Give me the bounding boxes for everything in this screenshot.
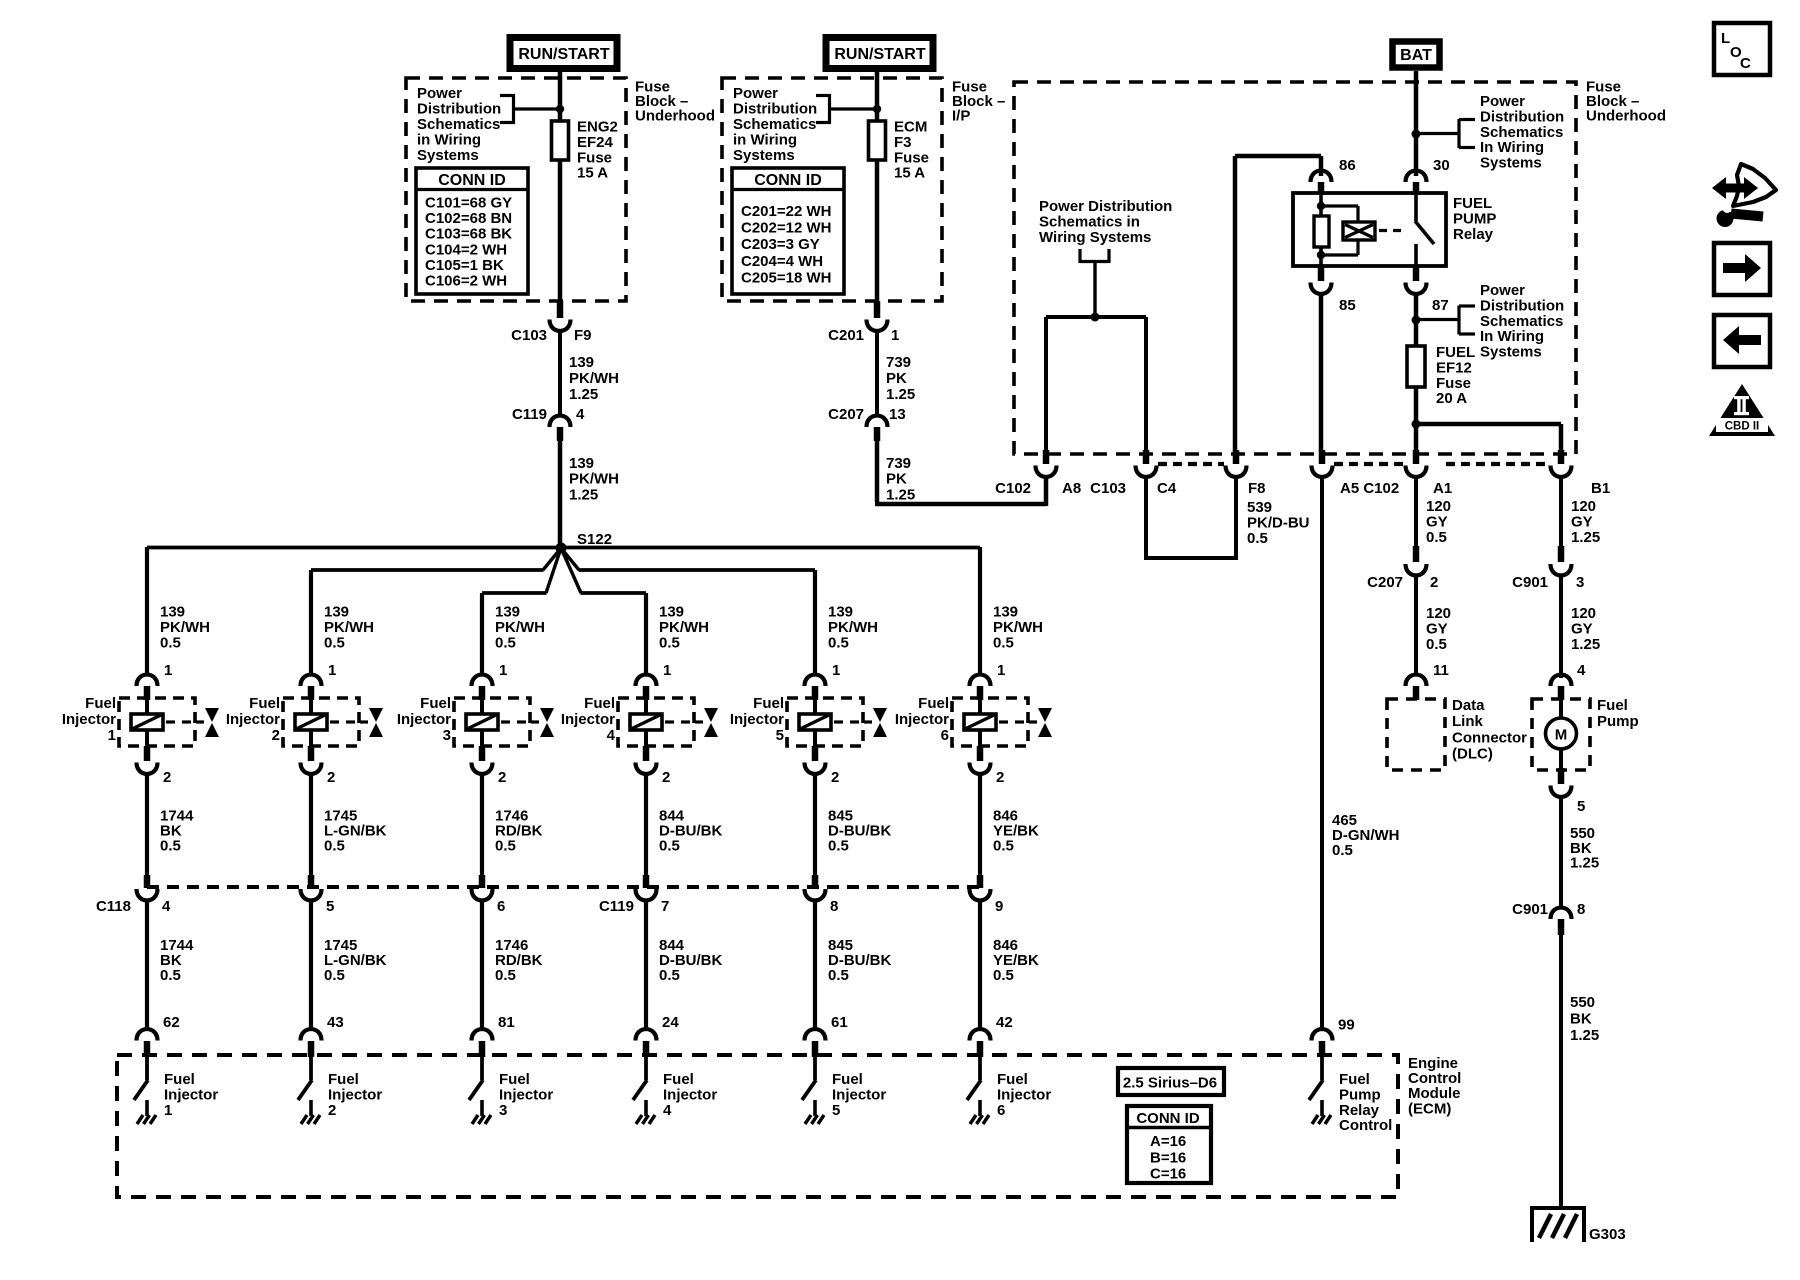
- svg-text:I/P: I/P: [952, 108, 970, 125]
- svg-text:739: 739: [886, 455, 911, 472]
- svg-text:C118: C118: [96, 898, 131, 915]
- svg-text:81: 81: [498, 1014, 515, 1031]
- svg-text:Systems: Systems: [733, 147, 795, 164]
- svg-text:Systems: Systems: [1480, 155, 1542, 172]
- svg-text:3: 3: [443, 727, 451, 744]
- svg-text:13: 13: [889, 406, 906, 423]
- svg-text:RUN/START: RUN/START: [834, 46, 925, 63]
- svg-text:43: 43: [327, 1014, 344, 1031]
- svg-text:0.5: 0.5: [160, 838, 181, 855]
- svg-text:C204=4 WH: C204=4 WH: [741, 253, 823, 270]
- svg-text:15 A: 15 A: [577, 165, 608, 182]
- svg-text:B=16: B=16: [1150, 1150, 1186, 1167]
- svg-text:120: 120: [1426, 498, 1451, 515]
- svg-text:Injector: Injector: [895, 711, 949, 728]
- svg-text:PK/WH: PK/WH: [495, 619, 545, 636]
- svg-text:1: 1: [499, 662, 507, 679]
- svg-text:PK/WH: PK/WH: [160, 619, 210, 636]
- svg-text:86: 86: [1339, 157, 1356, 174]
- svg-text:C207: C207: [1367, 574, 1403, 591]
- svg-text:A1: A1: [1433, 480, 1452, 497]
- svg-text:1: 1: [832, 662, 840, 679]
- svg-text:2: 2: [498, 769, 506, 786]
- svg-text:Link: Link: [1452, 713, 1483, 730]
- svg-text:PK/D-BU: PK/D-BU: [1247, 515, 1310, 532]
- svg-text:85: 85: [1339, 297, 1356, 314]
- svg-text:1.25: 1.25: [886, 486, 915, 503]
- svg-text:PK: PK: [886, 471, 907, 488]
- svg-text:15 A: 15 A: [894, 165, 925, 182]
- svg-text:Control: Control: [1339, 1117, 1392, 1134]
- svg-text:in Wiring: in Wiring: [733, 132, 797, 149]
- svg-text:3: 3: [1576, 574, 1584, 591]
- svg-text:C104=2 WH: C104=2 WH: [425, 241, 507, 258]
- svg-text:Injector: Injector: [730, 711, 784, 728]
- svg-text:4: 4: [162, 898, 171, 915]
- svg-text:Fuel: Fuel: [584, 695, 615, 712]
- svg-text:C106=2 WH: C106=2 WH: [425, 273, 507, 290]
- svg-text:G303: G303: [1589, 1226, 1626, 1243]
- svg-text:2: 2: [327, 769, 335, 786]
- svg-text:139: 139: [993, 604, 1018, 621]
- svg-text:3: 3: [499, 1102, 507, 1119]
- svg-text:PK/WH: PK/WH: [659, 619, 709, 636]
- svg-text:2: 2: [272, 727, 280, 744]
- svg-text:1.25: 1.25: [1570, 855, 1599, 872]
- svg-text:120: 120: [1426, 605, 1451, 622]
- svg-text:7: 7: [661, 898, 669, 915]
- svg-text:Schematics: Schematics: [733, 116, 816, 133]
- svg-text:C202=12 WH: C202=12 WH: [741, 220, 831, 237]
- svg-text:1.25: 1.25: [1571, 529, 1600, 546]
- svg-text:Data: Data: [1452, 697, 1485, 714]
- svg-text:Underhood: Underhood: [1586, 108, 1666, 125]
- svg-text:61: 61: [831, 1014, 848, 1031]
- svg-text:GY: GY: [1426, 621, 1448, 638]
- svg-text:0.5: 0.5: [659, 635, 680, 652]
- svg-text:0.5: 0.5: [993, 838, 1014, 855]
- svg-text:0.5: 0.5: [324, 838, 345, 855]
- svg-text:5: 5: [326, 898, 334, 915]
- svg-text:6: 6: [941, 727, 949, 744]
- svg-text:CONN ID: CONN ID: [438, 172, 506, 189]
- svg-text:87: 87: [1432, 297, 1449, 314]
- svg-text:539: 539: [1247, 499, 1272, 516]
- svg-text:Systems: Systems: [417, 147, 479, 164]
- svg-text:139: 139: [828, 604, 853, 621]
- svg-text:Injector: Injector: [62, 711, 116, 728]
- svg-text:CBD II: CBD II: [1725, 421, 1760, 433]
- svg-text:CONN ID: CONN ID: [1136, 1110, 1200, 1127]
- svg-text:0.5: 0.5: [160, 635, 181, 652]
- svg-text:F8: F8: [1248, 480, 1266, 497]
- svg-text:BK: BK: [1570, 1010, 1592, 1027]
- svg-text:C203=3 GY: C203=3 GY: [741, 236, 820, 253]
- svg-text:1.25: 1.25: [569, 486, 598, 503]
- svg-text:0.5: 0.5: [495, 967, 516, 984]
- svg-text:C207: C207: [828, 406, 864, 423]
- svg-text:Pump: Pump: [1597, 713, 1639, 730]
- svg-text:Injector: Injector: [561, 711, 615, 728]
- svg-text:C102=68 BN: C102=68 BN: [425, 210, 512, 227]
- svg-text:0.5: 0.5: [828, 635, 849, 652]
- svg-text:24: 24: [662, 1014, 679, 1031]
- svg-text:5: 5: [832, 1102, 840, 1119]
- svg-text:C: C: [1740, 55, 1751, 72]
- svg-text:0.5: 0.5: [1332, 842, 1353, 859]
- svg-text:C201=22 WH: C201=22 WH: [741, 203, 831, 220]
- svg-text:139: 139: [160, 604, 185, 621]
- svg-text:Power: Power: [417, 85, 462, 102]
- svg-text:139: 139: [495, 604, 520, 621]
- svg-text:Distribution: Distribution: [417, 101, 501, 118]
- svg-text:(DLC): (DLC): [1452, 746, 1493, 763]
- svg-text:30: 30: [1433, 157, 1450, 174]
- svg-text:S122: S122: [577, 531, 612, 548]
- svg-text:0.5: 0.5: [1426, 636, 1447, 653]
- svg-text:C201: C201: [828, 327, 864, 344]
- svg-text:C102: C102: [995, 480, 1031, 497]
- svg-text:C205=18 WH: C205=18 WH: [741, 269, 831, 286]
- svg-text:PK/WH: PK/WH: [569, 370, 619, 387]
- svg-text:1.25: 1.25: [1571, 636, 1600, 653]
- svg-text:A=16: A=16: [1150, 1133, 1186, 1150]
- svg-text:8: 8: [830, 898, 838, 915]
- svg-text:1.25: 1.25: [1570, 1027, 1599, 1044]
- svg-text:0.5: 0.5: [828, 967, 849, 984]
- svg-text:0.5: 0.5: [993, 967, 1014, 984]
- svg-text:PK/WH: PK/WH: [324, 619, 374, 636]
- svg-text:1: 1: [328, 662, 336, 679]
- svg-text:4: 4: [576, 406, 585, 423]
- svg-text:C105=1 BK: C105=1 BK: [425, 257, 504, 274]
- svg-text:42: 42: [996, 1014, 1013, 1031]
- svg-text:GY: GY: [1571, 621, 1593, 638]
- svg-text:Systems: Systems: [1480, 344, 1542, 361]
- svg-text:in Wiring: in Wiring: [417, 132, 481, 149]
- svg-text:2: 2: [328, 1102, 336, 1119]
- svg-text:0.5: 0.5: [1426, 529, 1447, 546]
- svg-text:2: 2: [662, 769, 670, 786]
- svg-text:20 A: 20 A: [1436, 390, 1467, 407]
- svg-text:A8: A8: [1062, 480, 1081, 497]
- svg-text:A5 C102: A5 C102: [1340, 480, 1399, 497]
- svg-text:C901: C901: [1512, 901, 1548, 918]
- svg-text:0.5: 0.5: [659, 838, 680, 855]
- svg-text:1.25: 1.25: [569, 386, 598, 403]
- svg-text:PK/WH: PK/WH: [993, 619, 1043, 636]
- svg-text:550: 550: [1570, 994, 1595, 1011]
- svg-text:F9: F9: [574, 327, 592, 344]
- svg-text:2: 2: [1430, 574, 1438, 591]
- svg-text:GY: GY: [1571, 514, 1593, 531]
- svg-text:GY: GY: [1426, 514, 1448, 531]
- svg-text:0.5: 0.5: [993, 635, 1014, 652]
- svg-text:C119: C119: [599, 898, 634, 915]
- svg-text:0.5: 0.5: [495, 635, 516, 652]
- svg-text:Fuel: Fuel: [85, 695, 116, 712]
- svg-text:139: 139: [659, 604, 684, 621]
- svg-text:C119: C119: [512, 406, 547, 423]
- svg-text:C103=68 BK: C103=68 BK: [425, 226, 512, 243]
- svg-text:Injector: Injector: [226, 711, 280, 728]
- svg-text:2: 2: [996, 769, 1004, 786]
- svg-text:C103: C103: [1090, 480, 1126, 497]
- svg-text:C101=68 GY: C101=68 GY: [425, 195, 512, 212]
- svg-text:PK/WH: PK/WH: [828, 619, 878, 636]
- svg-text:Wiring Systems: Wiring Systems: [1039, 229, 1151, 246]
- svg-text:0.5: 0.5: [1247, 530, 1268, 547]
- svg-text:B1: B1: [1591, 480, 1610, 497]
- svg-text:Fuel: Fuel: [420, 695, 451, 712]
- svg-text:PK/WH: PK/WH: [569, 471, 619, 488]
- svg-text:99: 99: [1338, 1017, 1355, 1034]
- svg-text:1: 1: [663, 662, 671, 679]
- svg-text:M: M: [1555, 727, 1568, 744]
- svg-text:2: 2: [163, 769, 171, 786]
- svg-text:120: 120: [1571, 605, 1596, 622]
- svg-text:C=16: C=16: [1150, 1166, 1186, 1183]
- svg-text:Relay: Relay: [1453, 226, 1494, 243]
- svg-text:1: 1: [164, 1102, 172, 1119]
- svg-text:PK: PK: [886, 370, 907, 387]
- svg-text:Fuel: Fuel: [918, 695, 949, 712]
- svg-text:11: 11: [1433, 662, 1449, 679]
- svg-text:0.5: 0.5: [659, 967, 680, 984]
- svg-text:Distribution: Distribution: [733, 101, 817, 118]
- svg-text:6: 6: [997, 1102, 1005, 1119]
- svg-text:139: 139: [569, 354, 594, 371]
- svg-text:1: 1: [891, 327, 899, 344]
- svg-text:Fuel: Fuel: [753, 695, 784, 712]
- svg-text:8: 8: [1577, 901, 1585, 918]
- svg-text:Injector: Injector: [397, 711, 451, 728]
- svg-text:1: 1: [164, 662, 172, 679]
- svg-text:0.5: 0.5: [160, 967, 181, 984]
- svg-text:4: 4: [1577, 662, 1586, 679]
- svg-text:739: 739: [886, 354, 911, 371]
- svg-text:139: 139: [324, 604, 349, 621]
- svg-text:C103: C103: [511, 327, 547, 344]
- svg-text:Fuel: Fuel: [249, 695, 280, 712]
- svg-text:CONN ID: CONN ID: [754, 172, 822, 189]
- svg-text:Underhood: Underhood: [635, 108, 715, 125]
- svg-text:5: 5: [776, 727, 784, 744]
- svg-text:BAT: BAT: [1400, 47, 1432, 64]
- svg-text:1.25: 1.25: [886, 386, 915, 403]
- svg-text:RUN/START: RUN/START: [518, 46, 609, 63]
- svg-text:6: 6: [497, 898, 505, 915]
- svg-text:0.5: 0.5: [324, 967, 345, 984]
- svg-text:Connector: Connector: [1452, 729, 1527, 746]
- svg-text:9: 9: [995, 898, 1003, 915]
- svg-text:1: 1: [108, 727, 116, 744]
- svg-text:L: L: [1721, 30, 1730, 47]
- svg-text:(ECM): (ECM): [1408, 1100, 1451, 1117]
- svg-text:4: 4: [607, 727, 616, 744]
- svg-text:C901: C901: [1512, 574, 1548, 591]
- svg-text:120: 120: [1571, 498, 1596, 515]
- svg-text:4: 4: [663, 1102, 672, 1119]
- svg-text:5: 5: [1577, 798, 1585, 815]
- svg-text:Fuel: Fuel: [1597, 697, 1628, 714]
- svg-text:C4: C4: [1157, 480, 1177, 497]
- svg-text:0.5: 0.5: [828, 838, 849, 855]
- svg-text:0.5: 0.5: [495, 838, 516, 855]
- svg-text:0.5: 0.5: [324, 635, 345, 652]
- svg-text:Power: Power: [733, 85, 778, 102]
- svg-text:62: 62: [163, 1014, 180, 1031]
- svg-text:Schematics: Schematics: [417, 116, 500, 133]
- svg-text:1: 1: [997, 662, 1005, 679]
- svg-text:2.5 Sirius–D6: 2.5 Sirius–D6: [1123, 1075, 1217, 1092]
- svg-text:2: 2: [831, 769, 839, 786]
- svg-text:139: 139: [569, 455, 594, 472]
